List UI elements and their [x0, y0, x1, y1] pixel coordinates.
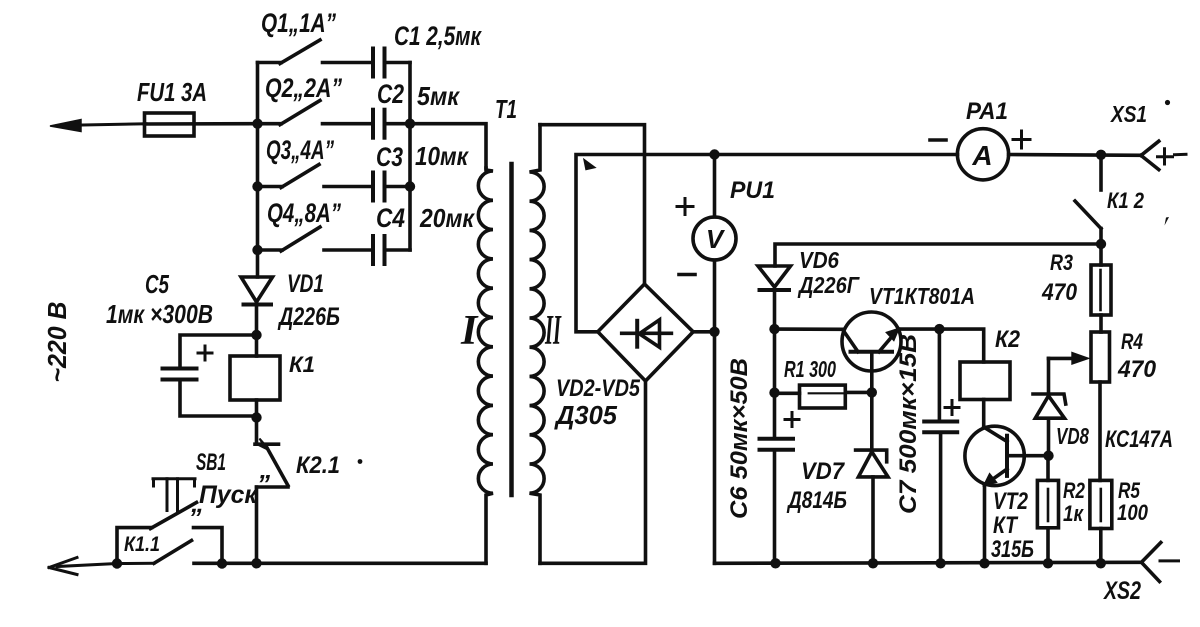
svg-text:С7 500мк×15В: С7 500мк×15В: [895, 334, 922, 514]
svg-text:XS2: XS2: [1102, 577, 1141, 605]
svg-text:С6 50мк×50В: С6 50мк×50В: [726, 358, 753, 519]
node: bridge minus junction: [709, 327, 719, 337]
connector XS1: [1141, 141, 1186, 169]
svg-text:R3: R3: [1050, 250, 1073, 275]
svg-text:1к: 1к: [1063, 501, 1085, 526]
wire: R4 wiper arm with arrow: [1049, 353, 1089, 365]
svg-text:470: 470: [1117, 356, 1157, 383]
wire: right bus of capacitor bank: [408, 63, 412, 251]
node: VT2 base junction: [1043, 451, 1053, 461]
svg-text:PA1: PA1: [966, 98, 1008, 125]
svg-text:Q2„2A”: Q2„2A”: [265, 73, 342, 103]
junction dots on bottom rail (left): [112, 558, 262, 569]
transformer T1 primary winding I: [478, 168, 493, 563]
svg-text:100: 100: [1117, 500, 1149, 525]
zener diode VD7: [856, 392, 888, 563]
wire: left bus: [256, 63, 260, 278]
junction dots on buses: [252, 119, 415, 256]
bridge inner diode symbol: [622, 320, 672, 347]
svg-text:SB1: SB1: [196, 449, 226, 476]
svg-text:C2: C2: [377, 79, 404, 109]
node: R1-VD7 junction: [867, 387, 877, 397]
capacitor C7: [924, 329, 959, 563]
node: XS1 junction: [1096, 150, 1106, 160]
svg-text:Д305: Д305: [554, 400, 617, 430]
node: PU1 top junction: [709, 149, 719, 159]
svg-text:315Б: 315Б: [991, 536, 1034, 563]
contact K1.1: [154, 541, 486, 564]
svg-text:VT2: VT2: [993, 488, 1029, 515]
relay coil K1: [230, 335, 280, 418]
node: C7 top junction: [934, 324, 944, 334]
transformer T1 secondary winding II: [530, 125, 545, 564]
wire: secondary bottom to bridge AC2: [540, 381, 646, 563]
pushbutton SB1: [117, 479, 222, 564]
capacitor C5: [163, 346, 213, 380]
svg-text:Д226Г: Д226Г: [797, 272, 859, 298]
svg-text:V: V: [706, 224, 726, 254]
svg-text:XS1: XS1: [1109, 101, 1147, 127]
svg-text:C1 2,5мк: C1 2,5мк: [394, 21, 482, 51]
capacitor C6: [760, 413, 800, 564]
ink specks: [358, 100, 1171, 464]
wire: bottom mains rail with arrow: [49, 558, 154, 575]
svg-text:T1: T1: [495, 94, 517, 124]
transistor VT2: [965, 426, 1049, 563]
svg-text:К1: К1: [289, 352, 315, 377]
fuse FU1: [145, 113, 258, 136]
capacitor C2: [373, 110, 410, 138]
svg-text:VD7: VD7: [801, 458, 846, 485]
svg-text:20мк: 20мк: [419, 203, 475, 233]
svg-text:R4: R4: [1121, 329, 1143, 354]
svg-text:R1 300: R1 300: [784, 356, 836, 382]
svg-text:R2: R2: [1063, 478, 1086, 503]
svg-text:II: II: [545, 308, 562, 354]
wire: bridge plus output to top rail: [576, 155, 958, 332]
wire: mains line left with arrow: [50, 120, 146, 132]
svg-text:5мк: 5мк: [417, 81, 461, 111]
contact K1.2: [1075, 155, 1101, 244]
svg-text:C4: C4: [376, 203, 405, 233]
wire: VD6 to VT1 base: [775, 327, 843, 331]
node: VD6 cathode junction: [769, 324, 779, 334]
capacitor C1: [373, 49, 410, 77]
svg-text:К2: К2: [995, 326, 1021, 353]
wire: minus rail bottom to XS2: [715, 562, 1142, 563]
svg-text:КС147А: КС147А: [1105, 426, 1173, 453]
ammeter PA1: [930, 129, 1141, 180]
bridge rectifier VD2-VD5 diamond: [598, 284, 693, 381]
svg-text:10мк: 10мк: [415, 141, 470, 171]
svg-text:К1 2: К1 2: [1107, 188, 1145, 213]
svg-text:КТ: КТ: [993, 512, 1019, 539]
node: K1 top junction: [251, 330, 261, 340]
connector XS2: [1141, 543, 1178, 582]
svg-text:VD6: VD6: [799, 247, 839, 273]
junction dots on bottom minus rail: [770, 558, 1106, 568]
zener diode VD8: [1033, 358, 1066, 455]
svg-text:A: A: [971, 140, 992, 171]
svg-text:1мк ×300В: 1мк ×300В: [106, 299, 213, 329]
svg-text:Q1„1A”: Q1„1A”: [261, 8, 336, 38]
svg-text:Пуск: Пуск: [199, 481, 258, 509]
svg-text:470: 470: [1041, 279, 1077, 306]
node: R3 top junction: [1096, 239, 1106, 249]
svg-text:VD2-VD5: VD2-VD5: [556, 375, 641, 402]
switch Q1: [258, 40, 374, 64]
wire: C5 branch: [180, 335, 257, 416]
svg-text:I: I: [460, 308, 479, 354]
svg-text:Д814Б: Д814Б: [786, 487, 847, 514]
svg-text:FU1 3A: FU1 3A: [137, 77, 207, 107]
resistor R1: [775, 385, 872, 408]
switch Q3: [258, 165, 374, 188]
svg-text:Q3„4A”: Q3„4A”: [266, 135, 334, 165]
wire: secondary top to bridge AC1: [540, 125, 645, 284]
wire: cap bank to transformer primary: [410, 124, 486, 168]
svg-text:VT1КТ801А: VT1КТ801А: [869, 283, 975, 309]
resistor R2: [1037, 456, 1058, 564]
svg-text:VD8: VD8: [1056, 423, 1089, 449]
resistor R5: [1090, 480, 1112, 563]
svg-text:К1.1: К1.1: [124, 533, 160, 556]
svg-text:~220 В: ~220 В: [42, 302, 72, 383]
svg-text:PU1: PU1: [730, 177, 775, 204]
capacitor C3: [373, 173, 410, 201]
wire: bridge minus output: [693, 332, 714, 564]
svg-text:К2.1: К2.1: [296, 452, 340, 479]
node: R1-C6 junction: [769, 388, 779, 398]
rheostat R4: [1091, 332, 1110, 480]
wire: VD6 junction down to R1/C6: [773, 329, 777, 438]
wire: regulator top rail y244: [775, 244, 1101, 266]
transformer T1 core: [509, 164, 514, 495]
svg-text:C3: C3: [376, 142, 403, 172]
transistor VT1: [842, 312, 901, 392]
relay coil K2: [960, 362, 1010, 427]
svg-text:”: ”: [257, 469, 270, 499]
wire: VT1 emitter to K2: [899, 329, 984, 362]
svg-text:Д226Б: Д226Б: [277, 303, 340, 331]
resistor R3: [1091, 244, 1111, 332]
capacitor C4: [373, 236, 410, 264]
switch Q4: [258, 227, 374, 251]
voltmeter PU1: [677, 155, 736, 332]
svg-text:Q4„8A”: Q4„8A”: [267, 198, 341, 228]
diode VD6: [758, 266, 791, 329]
node: K1 bottom junction: [251, 412, 261, 422]
contact K2.1: [255, 418, 288, 564]
svg-text:C5: C5: [145, 269, 169, 299]
svg-text:VD1: VD1: [287, 270, 324, 298]
diode VD1: [241, 277, 273, 335]
switch Q2: [258, 101, 374, 125]
